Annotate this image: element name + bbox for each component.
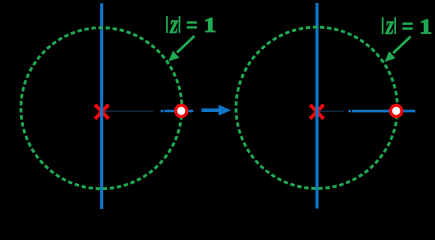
real axis highlighted segment (left plot) — [164, 110, 193, 113]
real axis highlighted segment lead dash (right plot) — [348, 110, 351, 112]
zero marker (left plot) — [176, 105, 187, 116]
real axis highlighted segment (right plot) — [352, 110, 415, 113]
unit circle (left plot) — [21, 28, 182, 189]
imaginary axis (left plot) — [100, 3, 103, 209]
pole X (right plot) — [310, 105, 324, 119]
real axis highlighted segment lead dash (left plot) — [161, 110, 164, 112]
real axis dark segment (right plot) — [320, 110, 344, 112]
annotation arrow to circle (left plot) — [169, 36, 195, 61]
label |z|=1 (left plot) — [166, 9, 216, 39]
transform arrow between plots — [202, 105, 232, 116]
imaginary axis (right plot) — [315, 3, 318, 209]
svg-text:1: 1 — [419, 15, 432, 38]
svg-text:z: z — [169, 9, 178, 39]
pole X (left plot) — [95, 105, 109, 119]
annotation arrow to circle (right plot) — [385, 37, 411, 62]
svg-text:1: 1 — [203, 14, 216, 37]
label |z|=1 (right plot) — [382, 11, 432, 41]
zero marker (right plot) — [391, 105, 402, 116]
svg-text:z: z — [385, 11, 394, 41]
real axis dark segment (left plot) — [103, 110, 153, 112]
unit circle (right plot) — [236, 27, 397, 188]
